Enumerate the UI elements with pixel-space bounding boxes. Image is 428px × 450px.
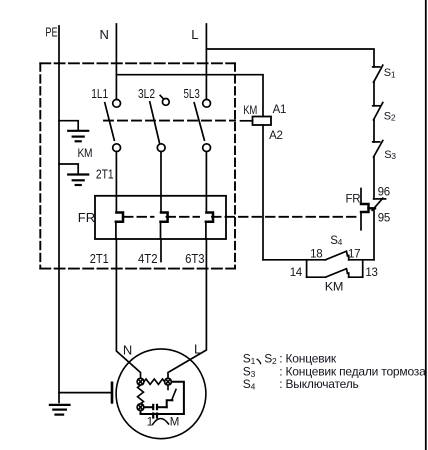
svg-text::: : xyxy=(279,377,282,391)
svg-text:S2: S2 xyxy=(264,352,277,367)
svg-text:5L3: 5L3 xyxy=(184,86,200,101)
svg-text:1: 1 xyxy=(147,414,154,428)
svg-text:A1: A1 xyxy=(273,104,286,116)
svg-text:S2: S2 xyxy=(384,110,396,122)
svg-text:3L2: 3L2 xyxy=(138,86,155,101)
svg-text:M: M xyxy=(170,417,179,429)
svg-text:18: 18 xyxy=(310,249,322,261)
svg-text:95: 95 xyxy=(378,213,390,225)
svg-text:FR: FR xyxy=(78,210,95,225)
svg-text:KM: KM xyxy=(325,282,343,294)
svg-text:6T3: 6T3 xyxy=(185,251,205,266)
svg-text:L: L xyxy=(194,341,201,356)
svg-text:PE: PE xyxy=(45,25,57,40)
svg-text:96: 96 xyxy=(378,186,390,198)
svg-text:FR: FR xyxy=(346,194,361,206)
svg-text:S1: S1 xyxy=(384,67,396,79)
svg-text:KM: KM xyxy=(243,105,257,117)
svg-text::: : xyxy=(279,352,282,366)
svg-text:A2: A2 xyxy=(269,130,282,142)
svg-text:2T1: 2T1 xyxy=(90,251,109,266)
svg-text:S4: S4 xyxy=(243,377,256,392)
svg-text:Концевик: Концевик xyxy=(286,352,337,366)
svg-text:17: 17 xyxy=(348,249,360,261)
svg-text:KM: KM xyxy=(78,148,93,160)
svg-text:1L1: 1L1 xyxy=(91,86,108,101)
svg-text:2T1: 2T1 xyxy=(96,166,114,181)
svg-text:13: 13 xyxy=(365,267,377,279)
svg-text:L: L xyxy=(191,27,198,42)
svg-text:S4: S4 xyxy=(330,235,342,247)
svg-text:Выключатель: Выключатель xyxy=(286,377,359,391)
svg-text:N: N xyxy=(100,27,109,42)
svg-text:14: 14 xyxy=(290,267,303,279)
svg-text:4T2: 4T2 xyxy=(138,251,158,266)
svg-text:N: N xyxy=(123,342,132,357)
svg-text:S3: S3 xyxy=(384,149,396,161)
